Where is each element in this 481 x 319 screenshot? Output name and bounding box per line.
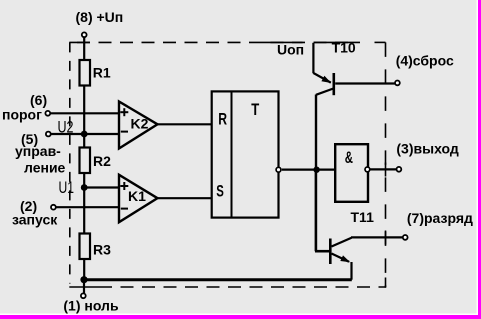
svg-text:R: R — [218, 110, 227, 128]
svg-text:T11: T11 — [351, 209, 375, 225]
svg-text:K2: K2 — [131, 116, 149, 132]
svg-text:T: T — [251, 101, 259, 119]
svg-text:управ-: управ- — [15, 143, 61, 159]
svg-text:R3: R3 — [93, 242, 111, 258]
svg-text:R1: R1 — [93, 64, 111, 80]
svg-text:T10: T10 — [332, 40, 356, 56]
svg-text:K1: K1 — [128, 188, 146, 204]
svg-text:&: & — [345, 149, 353, 167]
svg-text:S: S — [216, 182, 224, 200]
svg-text:R2: R2 — [93, 153, 111, 169]
svg-text:ление: ление — [24, 159, 66, 175]
svg-text:(6): (6) — [30, 92, 47, 108]
svg-text:запуск: запуск — [12, 211, 58, 227]
svg-text:Uоп: Uоп — [277, 42, 304, 58]
svg-text:(7)разряд: (7)разряд — [407, 210, 473, 226]
svg-text:(3)выход: (3)выход — [396, 141, 458, 157]
svg-text:(1) ноль: (1) ноль — [63, 298, 119, 314]
svg-text:(4)сброс: (4)сброс — [396, 53, 454, 69]
svg-text:U1: U1 — [59, 179, 75, 197]
svg-text:порог: порог — [2, 106, 42, 122]
svg-text:U2: U2 — [58, 118, 74, 136]
svg-text:(8) +Uп: (8) +Uп — [76, 9, 124, 25]
